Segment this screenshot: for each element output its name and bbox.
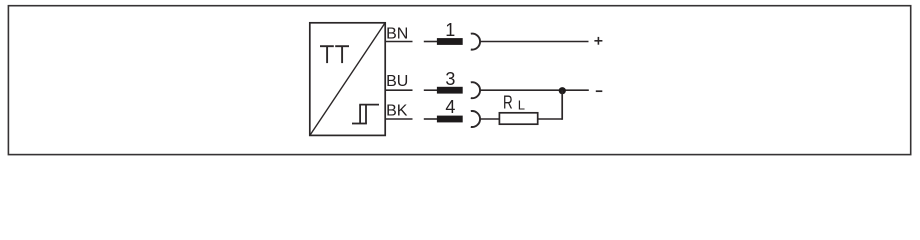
resistor RL [499,92,537,125]
minus terminal [596,90,603,92]
wire to plus terminal [481,41,589,43]
svg-text:BU: BU [386,73,408,90]
wire junction riser [561,90,563,120]
wire to resistor RL [480,118,499,120]
connector socket pin 4 [471,111,480,127]
svg-text:4: 4 [445,97,455,117]
pin 1 [437,20,463,45]
svg-text:BN: BN [386,25,408,42]
svg-text:L: L [518,97,525,112]
wire BN from sensor [386,41,413,43]
wire lead to pin 3 [424,89,437,91]
wire lead to pin 4 [424,118,437,120]
hysteresis switching-output symbol [352,105,379,124]
connector socket pin 3 [471,82,480,98]
wire BU from sensor [386,89,413,91]
junction node [559,87,566,94]
wire lead to pin 1 [424,41,437,43]
sensor outline [310,23,385,136]
pin 3 [437,69,463,94]
wire to minus terminal [480,89,589,91]
svg-text:1: 1 [445,20,455,40]
plus terminal [594,37,602,45]
svg-text:BK: BK [386,103,408,120]
pin 4 [437,97,463,123]
svg-text:R: R [503,92,513,113]
sensor function symbol TT [320,46,349,63]
wire BK from sensor [386,118,413,120]
svg-text:3: 3 [445,69,455,89]
connector socket pin 1 [471,34,480,50]
wire resistor to junction [538,118,563,120]
